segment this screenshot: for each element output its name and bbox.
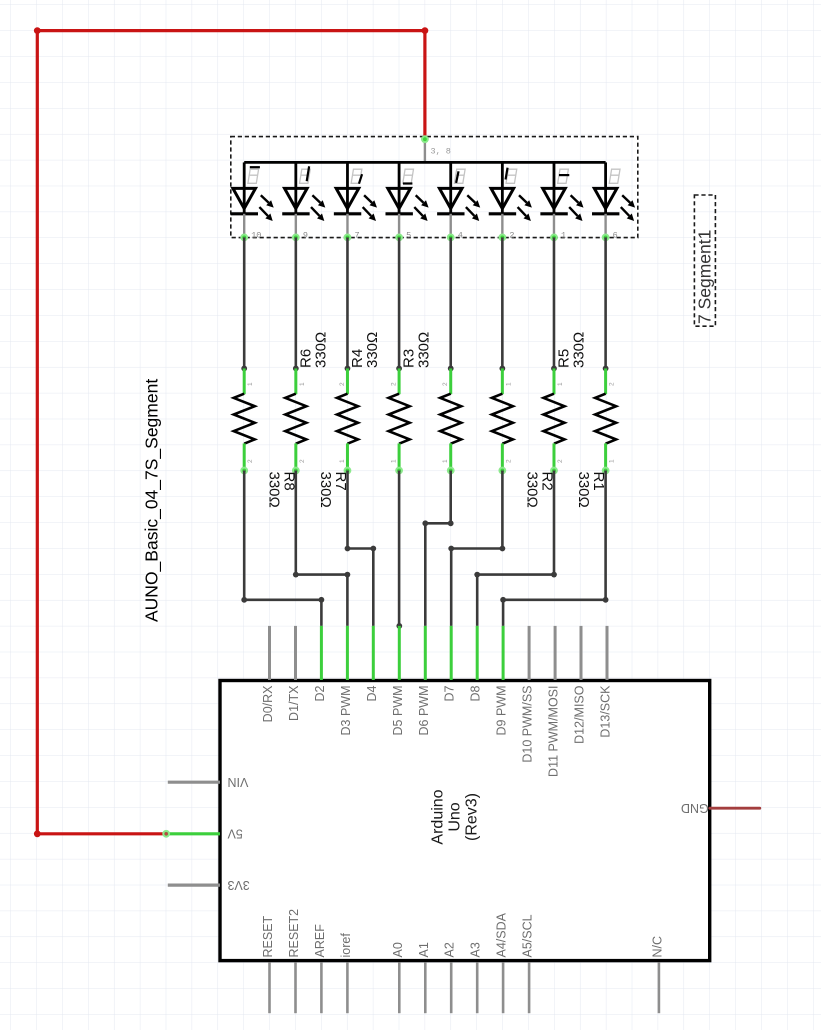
wire resistor column 3 to Arduino pin D4 [345, 471, 377, 626]
node 5V connection [163, 831, 169, 837]
wire resistor column 2 to Arduino pin D3 [293, 471, 350, 626]
wire display pin 10 to resistor column 1 [243, 237, 246, 368]
svg-text:330Ω: 330Ω [312, 332, 329, 368]
wire GND (dark red, unconnected end) [710, 807, 760, 810]
pin D4 [365, 626, 379, 702]
pin D13/SCK [599, 626, 613, 738]
label resistor R6 value [297, 332, 329, 368]
pin D7 [443, 626, 457, 702]
svg-text:D3 PWM: D3 PWM [339, 686, 353, 736]
svg-text:D4: D4 [365, 685, 379, 701]
svg-text:7 Segment1: 7 Segment1 [695, 230, 715, 324]
svg-text:2: 2 [442, 382, 449, 386]
svg-text:330Ω: 330Ω [571, 332, 588, 368]
wire resistor column 7 to Arduino pin D8 [474, 471, 557, 626]
svg-text:D0/RX: D0/RX [261, 685, 275, 722]
pin A2 [443, 942, 457, 1013]
pin 5V [168, 827, 243, 841]
svg-text:D7: D7 [443, 685, 457, 701]
svg-text:3V3: 3V3 [227, 878, 249, 892]
wire resistor column 6 to Arduino pin D7 [448, 471, 505, 626]
pin RESET [261, 915, 275, 1013]
label resistor R1 value [575, 472, 607, 508]
pin RESET2 [287, 909, 301, 1013]
label resistor R5 value [556, 332, 588, 368]
pin VIN [168, 775, 249, 789]
svg-text:7: 7 [354, 230, 359, 240]
pin D9 PWM [495, 626, 509, 736]
svg-text:RESET2: RESET2 [287, 909, 301, 958]
LED2 display segment b (pin 9) [282, 162, 325, 240]
label Arduino Uno (Rev3) [430, 789, 481, 844]
svg-text:330Ω: 330Ω [317, 472, 334, 508]
pin GND [681, 801, 709, 815]
pin 3V3 [168, 878, 250, 892]
svg-text:5: 5 [406, 230, 411, 240]
svg-text:D8: D8 [469, 685, 483, 701]
svg-text:AREF: AREF [313, 924, 327, 958]
svg-text:2: 2 [505, 459, 512, 463]
svg-text:A0: A0 [391, 942, 405, 957]
wire internal bus of display [244, 161, 605, 164]
svg-text:ioref: ioref [339, 933, 353, 958]
svg-text:VIN: VIN [228, 775, 249, 789]
label resistor R4 value [349, 332, 381, 368]
svg-text:D9 PWM: D9 PWM [495, 686, 509, 736]
pin A0 [391, 942, 405, 1013]
resistor R2 330 ohm [492, 366, 513, 474]
label resistor R2 value [524, 472, 556, 508]
pin D1/TX [287, 626, 301, 721]
svg-text:D12/MISO: D12/MISO [573, 685, 587, 744]
resistor R7 330 ohm [285, 366, 306, 474]
svg-text:330Ω: 330Ω [524, 472, 541, 508]
svg-text:1: 1 [299, 382, 306, 386]
resistor R6 330 ohm [337, 366, 358, 474]
svg-text:A3: A3 [469, 942, 483, 957]
svg-text:1: 1 [561, 230, 566, 240]
wire resistor column 8 to Arduino pin D9 [500, 471, 608, 626]
wire display pin 7 to resistor column 3 [346, 237, 349, 368]
svg-text:A5/SCL: A5/SCL [521, 914, 535, 957]
svg-text:D5 PWM: D5 PWM [391, 686, 405, 736]
pin D3 PWM [339, 626, 353, 736]
pin D8 [469, 626, 483, 702]
svg-text:10: 10 [251, 230, 261, 240]
pin AREF [313, 924, 327, 1013]
svg-text:1: 1 [391, 459, 398, 463]
LED3 display segment c (pin 7) [334, 162, 377, 240]
svg-text:D13/SCK: D13/SCK [599, 685, 613, 738]
LED6 display segment f (pin 2) [489, 162, 532, 240]
wire display pin 1 to resistor column 7 [553, 237, 556, 368]
wire display pin 2 to resistor column 6 [501, 237, 504, 368]
wire resistor column 4 to Arduino pin D5 [396, 471, 402, 629]
pin A5/SCL [521, 914, 535, 1013]
svg-text:6: 6 [613, 230, 618, 240]
svg-text:330Ω: 330Ω [265, 472, 282, 508]
pin D2 [313, 626, 327, 702]
svg-text:1: 1 [247, 382, 254, 386]
svg-text:RESET: RESET [261, 915, 275, 957]
svg-text:A1: A1 [417, 942, 431, 957]
svg-text:GND: GND [681, 801, 709, 815]
svg-text:D2: D2 [313, 685, 327, 701]
wire display pin 5 to resistor column 4 [398, 237, 401, 368]
svg-text:N/C: N/C [650, 936, 664, 958]
resistor R4 330 ohm [389, 366, 410, 474]
label resistor R3 value [401, 332, 433, 368]
svg-text:D1/TX: D1/TX [287, 685, 301, 721]
svg-text:D11 PWM/MOSI: D11 PWM/MOSI [547, 686, 561, 777]
resistor R3 330 ohm [440, 366, 461, 474]
pin ioref [339, 933, 353, 1014]
pin D10 PWM/SS [521, 626, 535, 763]
svg-text:2: 2 [557, 459, 564, 463]
svg-text:9: 9 [303, 230, 308, 240]
LED5 display segment e (pin 4) [437, 162, 480, 240]
wire display pin 4 to resistor column 5 [449, 237, 452, 368]
label resistor R8 value [265, 472, 297, 508]
svg-text:1: 1 [609, 459, 616, 463]
node 3,8 common anode of display [422, 136, 451, 163]
pin A1 [417, 942, 431, 1013]
pin A3 [469, 942, 483, 1013]
pin D6 PWM [417, 626, 431, 736]
wire 5V (red) from Arduino 5V pin to display common anode [34, 27, 428, 837]
svg-text:2: 2 [509, 230, 514, 240]
svg-text:1: 1 [505, 382, 512, 386]
pin D12/MISO [573, 626, 587, 744]
wire display pin 9 to resistor column 2 [295, 237, 298, 368]
LED4 display segment d (pin 5) [385, 162, 428, 240]
label resistor R7 value [317, 472, 349, 508]
resistor R1 330 ohm [544, 366, 565, 474]
pin A4/SDA [495, 912, 509, 1013]
svg-text:1: 1 [442, 459, 449, 463]
svg-text:A2: A2 [443, 942, 457, 957]
svg-text:AUNO_Basic_04_7S_Segment: AUNO_Basic_04_7S_Segment [142, 379, 163, 622]
wire display pin 6 to resistor column 8 [604, 237, 607, 368]
svg-text:D6 PWM: D6 PWM [417, 686, 431, 736]
svg-text:2: 2 [609, 382, 616, 386]
svg-text:330Ω: 330Ω [364, 332, 381, 368]
resistor R5 330 ohm [595, 366, 616, 474]
svg-text:4: 4 [458, 230, 463, 240]
wire resistor column 5 to Arduino pin D6 [422, 471, 453, 626]
svg-text:D10 PWM/SS: D10 PWM/SS [521, 686, 535, 763]
svg-text:1: 1 [557, 382, 564, 386]
label schematic title AUNO_Basic_04_7S_Segment [142, 379, 163, 622]
wire resistor column 1 to Arduino pin D2 [241, 471, 324, 626]
LED8 display segment dp (pin 6) [592, 162, 635, 240]
pin N/C [650, 936, 664, 1013]
pin D5 PWM [391, 626, 405, 736]
svg-text:2: 2 [247, 459, 254, 463]
svg-text:2: 2 [391, 382, 398, 386]
resistor R8 330 ohm [234, 366, 255, 474]
svg-text:5V: 5V [227, 827, 243, 841]
LED7 display segment g (pin 1) [540, 162, 583, 240]
svg-text:2: 2 [299, 459, 306, 463]
7-segment display module body (dashed outline) [231, 137, 638, 238]
pin D11 PWM/MOSI [547, 626, 561, 777]
IC U1 Arduino Uno (Rev3) board outline [220, 681, 710, 961]
svg-text:1: 1 [339, 459, 346, 463]
label 7 Segment1 (dashed) [694, 195, 715, 326]
svg-text:3, 8: 3, 8 [431, 147, 451, 157]
svg-text:A4/SDA: A4/SDA [495, 912, 509, 957]
svg-text:2: 2 [339, 382, 346, 386]
svg-text:330Ω: 330Ω [575, 472, 592, 508]
pin D0/RX [261, 626, 275, 722]
svg-text:330Ω: 330Ω [416, 332, 433, 368]
LED1 display segment a (pin 10) [231, 162, 274, 240]
